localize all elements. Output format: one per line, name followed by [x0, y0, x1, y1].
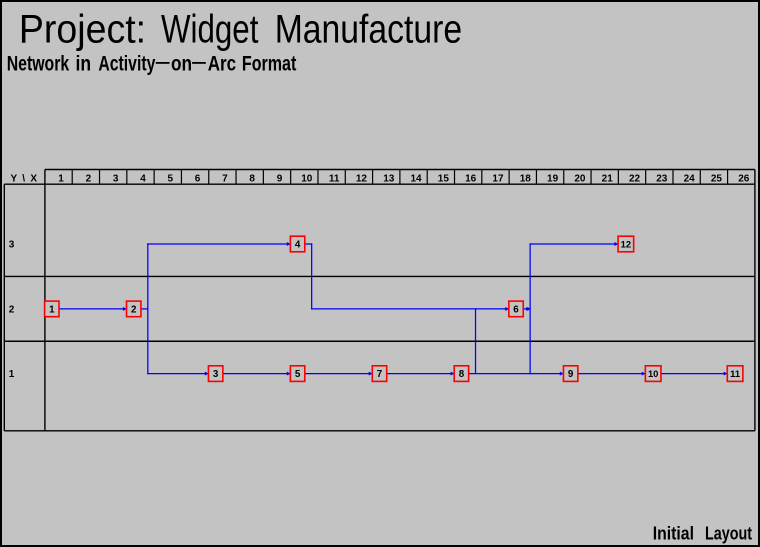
- svg-text:3: 3: [113, 173, 119, 184]
- junction dot at node 6 stub: [526, 307, 529, 310]
- svg-text:Activity: Activity: [98, 51, 156, 75]
- arc 7->8 (Init. Prod.): [387, 372, 455, 376]
- svg-text:5: 5: [295, 369, 301, 380]
- arc 1->2 (Approve Plan): [59, 307, 127, 311]
- node 11: [727, 366, 743, 382]
- svg-text:9: 9: [568, 369, 574, 380]
- node 7: [372, 366, 386, 382]
- subtitle dash 1: [156, 62, 170, 64]
- node 4: [290, 236, 304, 252]
- node 2: [127, 301, 141, 317]
- svg-text:25: 25: [711, 173, 723, 184]
- svg-text:6: 6: [195, 173, 201, 184]
- svg-text:Layout: Layout: [705, 524, 753, 544]
- svg-text:20: 20: [574, 173, 586, 184]
- wire: vertical channel right of node 2: [147, 244, 149, 374]
- svg-text:Network: Network: [7, 51, 70, 75]
- node 6: [509, 301, 523, 317]
- svg-text:2: 2: [131, 305, 137, 316]
- svg-text:7: 7: [377, 369, 383, 380]
- svg-text:2: 2: [86, 173, 92, 184]
- svg-text:16: 16: [465, 173, 477, 184]
- arc 3->5 (Prototype): [223, 372, 291, 376]
- node 9: [563, 366, 577, 382]
- svg-text:13: 13: [383, 173, 395, 184]
- arc 8->6 (Dummy) vertical: [475, 309, 477, 374]
- wire: node 4 outgoing stub: [305, 243, 312, 245]
- svg-text:4: 4: [295, 240, 301, 251]
- arc 5->7 (Materials/Facility): [305, 372, 373, 376]
- footer label: Initial Layout: [653, 523, 753, 544]
- svg-text:18: 18: [520, 173, 532, 184]
- svg-text:19: 19: [547, 173, 559, 184]
- svg-text:21: 21: [602, 173, 614, 184]
- node 12: [618, 236, 634, 252]
- svg-text:17: 17: [492, 173, 504, 184]
- svg-text:12: 12: [621, 239, 631, 250]
- svg-text:23: 23: [656, 173, 668, 184]
- wire: node 2 outgoing stub: [141, 308, 148, 310]
- node 8: [454, 366, 468, 382]
- svg-text:Manufacture: Manufacture: [275, 7, 462, 51]
- svg-text:1: 1: [49, 305, 55, 316]
- svg-text:24: 24: [684, 173, 696, 184]
- axis grid box lines: [4, 170, 755, 431]
- svg-text:14: 14: [410, 173, 422, 184]
- wire: vertical channel right of node 6: [529, 244, 531, 374]
- arc 4->6 (Mkt. Strat.) horizontal: [312, 307, 509, 311]
- svg-text:in: in: [75, 53, 91, 76]
- svg-text:4: 4: [140, 173, 146, 184]
- svg-text:8: 8: [249, 173, 255, 184]
- svg-text:8: 8: [459, 369, 465, 380]
- svg-text:12: 12: [356, 173, 368, 184]
- wire: vertical channel below node 4: [311, 244, 313, 309]
- svg-text:3: 3: [9, 240, 15, 251]
- svg-text:22: 22: [629, 173, 641, 184]
- subtitle: Network in Activity-on-Arc Format: [7, 51, 297, 76]
- svg-text:Widget: Widget: [161, 6, 258, 52]
- wire: node 6 outgoing stub: [523, 308, 530, 310]
- svg-text:Project:: Project:: [19, 7, 146, 51]
- arc 10->11 (Production): [660, 372, 728, 376]
- column header numbers 1-26: [58, 173, 749, 184]
- svg-text:7: 7: [222, 173, 228, 184]
- node 5: [290, 366, 304, 382]
- svg-text:Format: Format: [242, 51, 296, 75]
- svg-text:9: 9: [277, 173, 283, 184]
- svg-text:Initial: Initial: [653, 523, 694, 543]
- svg-text:15: 15: [438, 173, 450, 184]
- svg-text:3: 3: [213, 369, 219, 380]
- node 10: [645, 366, 661, 382]
- svg-text:1: 1: [58, 173, 64, 184]
- svg-text:on: on: [171, 53, 192, 76]
- arc 2->3 (Drawings/Write Specs) horizontal: [148, 372, 209, 376]
- svg-text:Arc: Arc: [208, 53, 237, 76]
- header cell separator lines: [72, 170, 727, 185]
- svg-text:1: 1: [9, 369, 15, 380]
- node 3: [208, 366, 222, 382]
- svg-text:11: 11: [730, 368, 740, 379]
- svg-text:2: 2: [9, 305, 15, 316]
- arc 9->10 (Changes): [578, 372, 646, 376]
- svg-text:5: 5: [167, 173, 173, 184]
- title: Project: Widget Manufacture: [19, 6, 462, 52]
- svg-text:6: 6: [513, 305, 519, 316]
- svg-text:10: 10: [648, 368, 658, 379]
- node 1: [45, 301, 59, 317]
- svg-text:10: 10: [301, 173, 313, 184]
- arc 2->4 (Anal. Market) horizontal: [148, 242, 291, 246]
- svg-text:Y \ X: Y \ X: [11, 174, 38, 185]
- arc 8->9 (Evaluate): [469, 372, 564, 376]
- svg-text:11: 11: [329, 173, 340, 184]
- arc 6->12 (Marketing) horizontal: [530, 242, 618, 246]
- subtitle dash 2: [192, 62, 206, 64]
- svg-text:26: 26: [738, 173, 750, 184]
